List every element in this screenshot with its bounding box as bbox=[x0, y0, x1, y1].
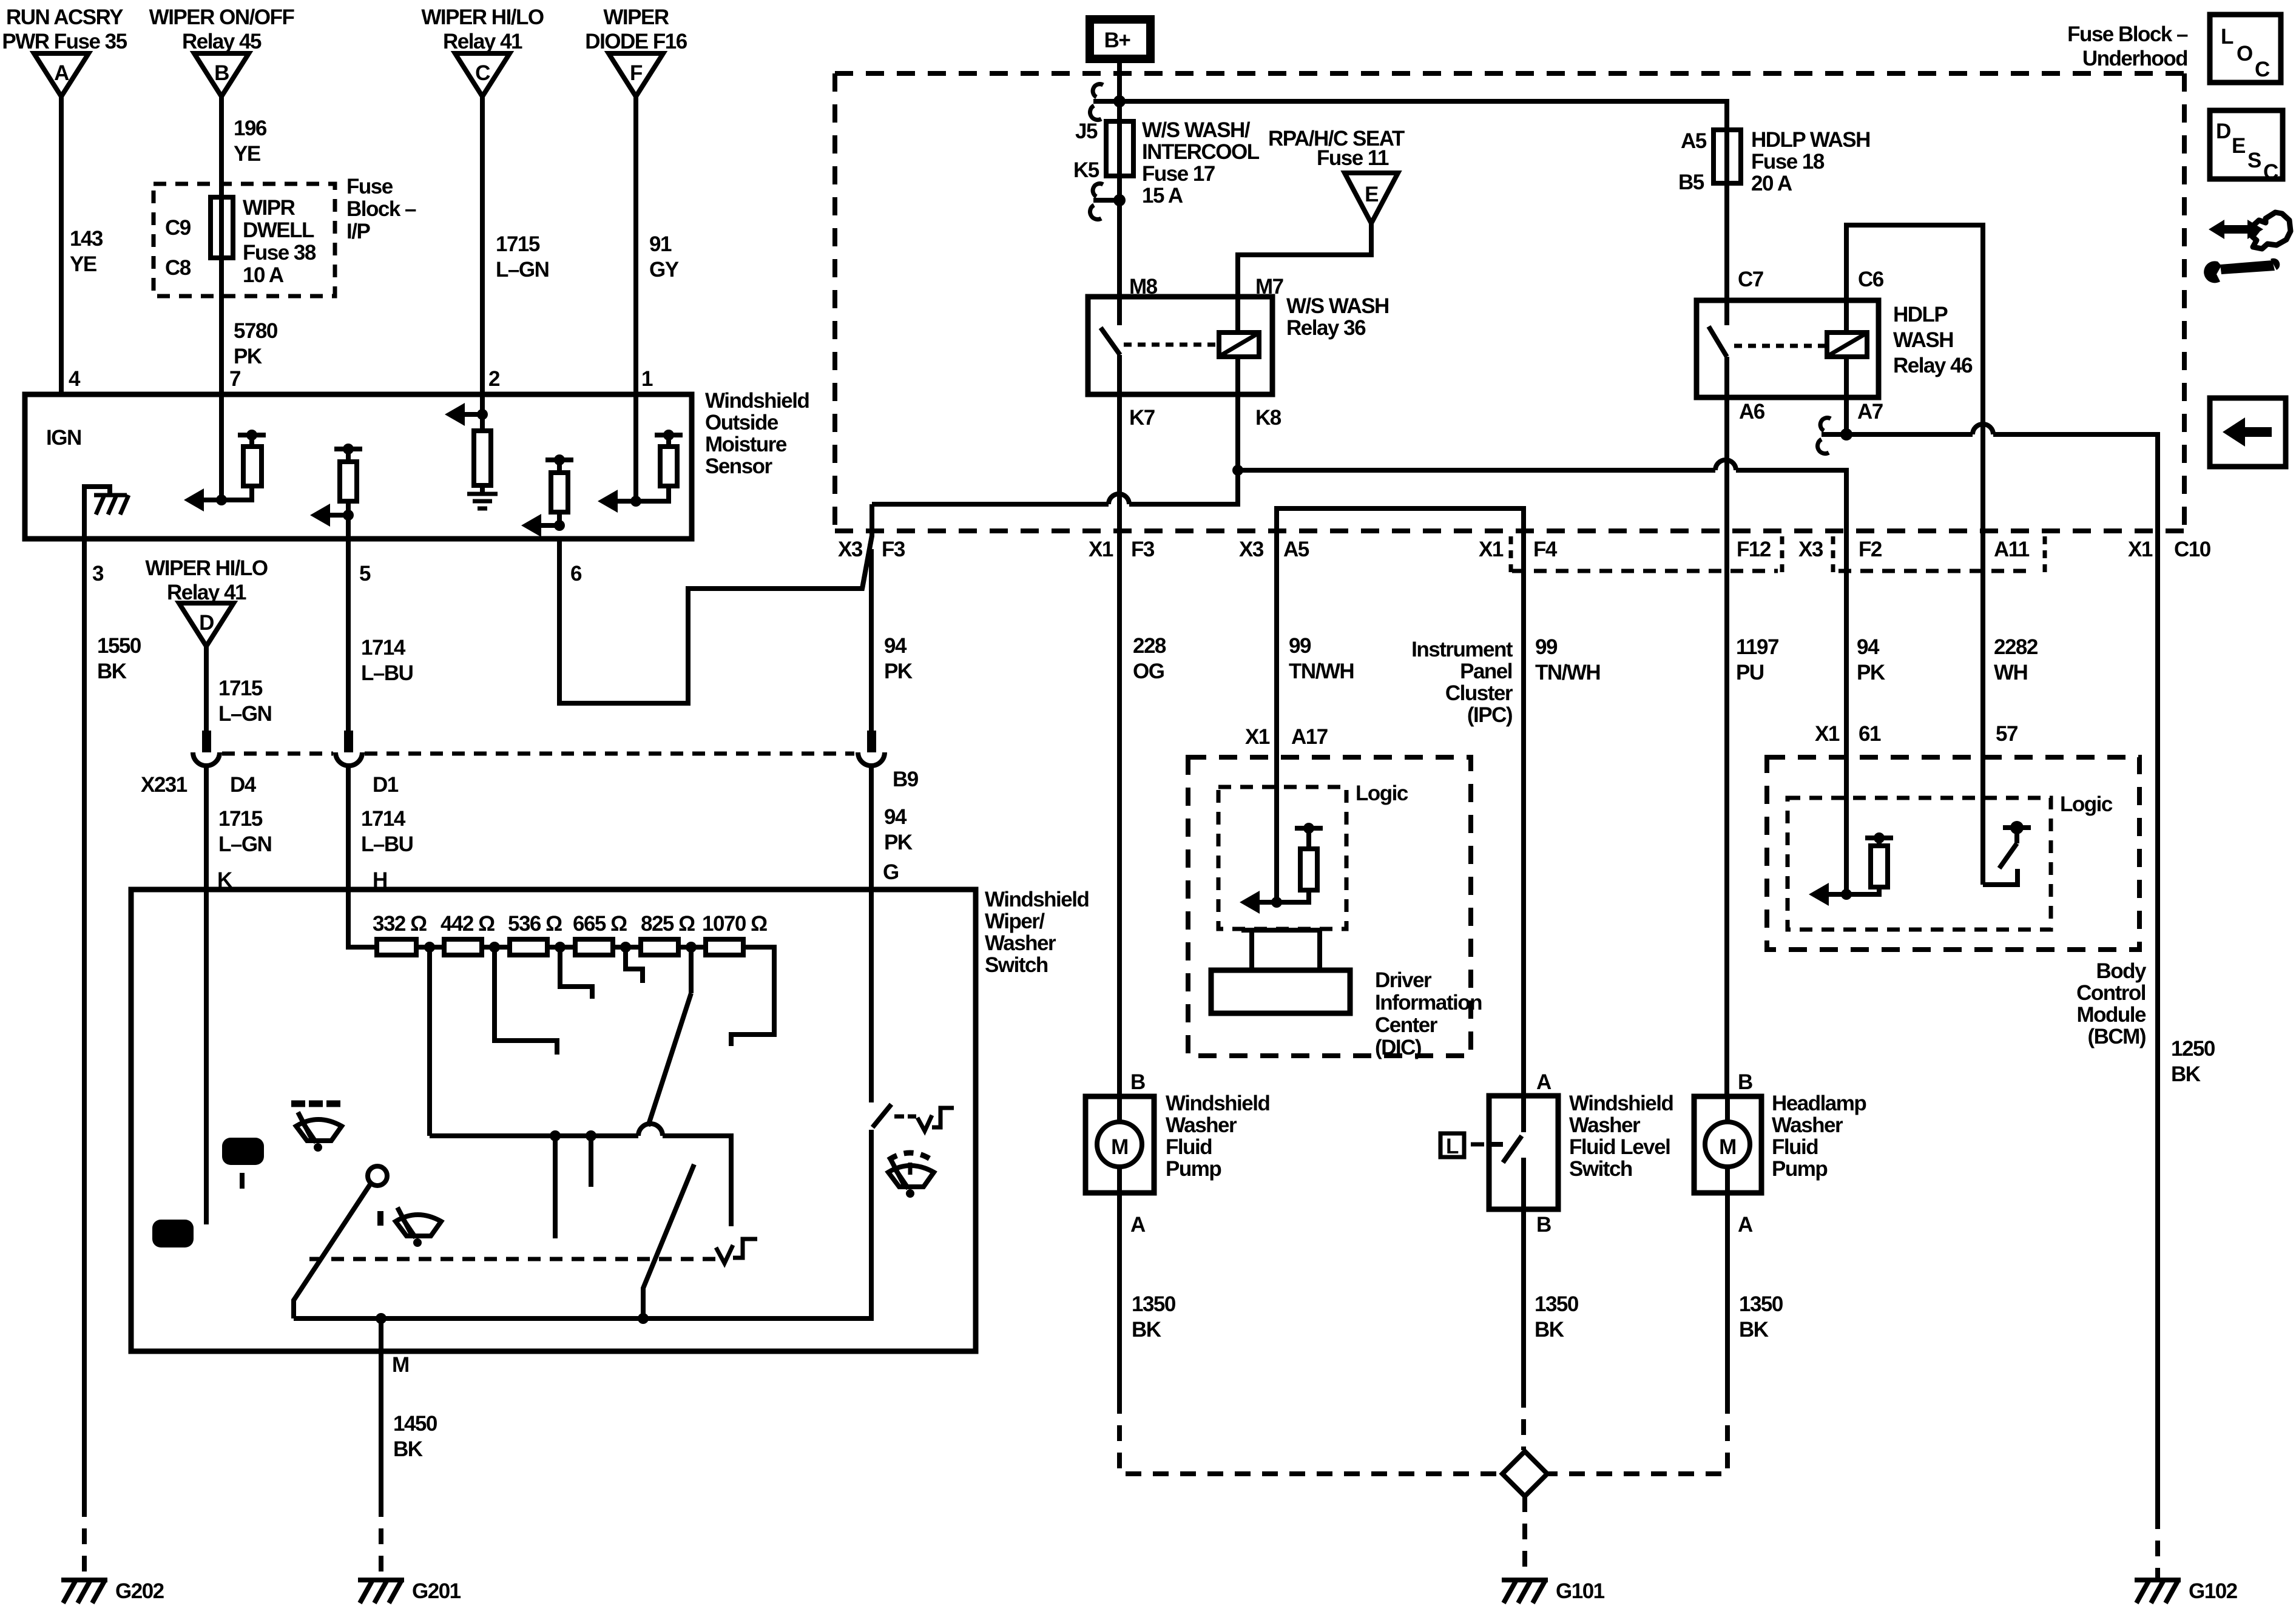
wire ladder link 5 bbox=[678, 945, 706, 950]
svg-text:196: 196 bbox=[234, 116, 267, 140]
label 1350 BK (washer pump) bbox=[1132, 1292, 1176, 1342]
label 143 YE bbox=[70, 227, 103, 276]
label 1350 BK (level switch) bbox=[1535, 1292, 1579, 1342]
connector row tick A11 bbox=[2043, 536, 2047, 573]
svg-text:X1: X1 bbox=[1479, 538, 1504, 561]
svg-text:536 Ω: 536 Ω bbox=[508, 912, 562, 936]
svg-text:5780: 5780 bbox=[234, 319, 278, 343]
svg-text:Control: Control bbox=[2076, 981, 2146, 1005]
BCM internal switch (washer level input) bbox=[1983, 821, 2031, 885]
connector X231 dashed link bbox=[222, 752, 854, 756]
svg-text:(BCM): (BCM) bbox=[2087, 1025, 2146, 1048]
label 91 GY bbox=[649, 232, 679, 282]
svg-text:L–BU: L–BU bbox=[361, 661, 413, 685]
node dot tap3 bbox=[555, 942, 566, 953]
wire pin5 to connector D1 bbox=[346, 515, 351, 731]
washer switch dashes bbox=[894, 1115, 916, 1119]
gang line momentary contact glyph bbox=[716, 1239, 757, 1263]
svg-text:J5: J5 bbox=[1075, 120, 1098, 143]
svg-text:PU: PU bbox=[1736, 661, 1764, 684]
switch internal wire K bbox=[204, 890, 209, 1224]
node dot arm lower on M bus bbox=[638, 1313, 649, 1324]
svg-text:M: M bbox=[392, 1353, 409, 1377]
svg-text:A11: A11 bbox=[1994, 538, 2030, 561]
dashed wire splice to G101 bbox=[1522, 1496, 1527, 1578]
wire K8 node to BCM input 61 (hops A6 wire) bbox=[1238, 460, 1846, 894]
connector row tick F12/X3 bbox=[1780, 536, 1784, 573]
relay 36 actuation dashed link bbox=[1124, 343, 1217, 347]
svg-text:Switch: Switch bbox=[1569, 1157, 1632, 1181]
svg-text:94: 94 bbox=[1857, 635, 1880, 659]
wire dashed to G201 bbox=[379, 1501, 383, 1578]
svg-text:F12: F12 bbox=[1737, 538, 1771, 561]
fuse F18 value label bbox=[1751, 128, 1870, 195]
svg-text:Instrument: Instrument bbox=[1411, 638, 1513, 661]
svg-text:1714: 1714 bbox=[361, 636, 406, 660]
wire A pin4: 143 YE bbox=[59, 96, 64, 394]
IPC internal node: arrow and dot bbox=[1240, 891, 1282, 914]
svg-text:L–BU: L–BU bbox=[361, 832, 413, 856]
node dot K8 bbox=[1232, 465, 1243, 476]
svg-text:X3: X3 bbox=[1798, 538, 1823, 561]
wire B9 to switch pin G: 94 PK bbox=[869, 766, 874, 890]
Fuse Block - Underhood dashed box bbox=[835, 73, 2184, 531]
power triangle C bbox=[455, 53, 510, 96]
MIST position blob bbox=[222, 1138, 264, 1165]
svg-text:G101: G101 bbox=[1556, 1579, 1605, 1603]
svg-text:S: S bbox=[2247, 149, 2261, 172]
wire dashed to G202 bbox=[82, 1501, 87, 1578]
svg-text:10 A: 10 A bbox=[243, 263, 284, 287]
module BCM dashed box bbox=[1767, 757, 2139, 950]
svg-text:L–GN: L–GN bbox=[218, 702, 271, 726]
svg-text:Windshield: Windshield bbox=[1166, 1092, 1269, 1115]
svg-text:X1: X1 bbox=[1815, 722, 1840, 746]
svg-text:Relay 45: Relay 45 bbox=[182, 30, 262, 53]
svg-text:C: C bbox=[475, 61, 490, 85]
svg-text:99: 99 bbox=[1535, 635, 1558, 659]
label 1715 L-GN (below D4) bbox=[218, 807, 271, 856]
power triangle B bbox=[194, 53, 249, 96]
svg-text:A5: A5 bbox=[1283, 538, 1309, 561]
sensor pin1 internal node: arrow and dot bbox=[598, 490, 641, 513]
wiper icon low (tick left) bbox=[380, 1207, 441, 1247]
svg-text:1715: 1715 bbox=[218, 807, 263, 831]
svg-text:B: B bbox=[1738, 1070, 1752, 1094]
relay 36 coil bbox=[1219, 297, 1259, 394]
relay 46 coil bbox=[1827, 300, 1867, 397]
label Instrument Panel Cluster (IPC) bbox=[1411, 638, 1513, 727]
svg-text:W/S WASH/: W/S WASH/ bbox=[1142, 118, 1251, 142]
wire pump A: 1350 BK bbox=[1117, 1193, 1122, 1398]
power feed E: RPA/H/C SEAT Fuse 11 label bbox=[1268, 127, 1405, 170]
node dot tap2 bbox=[489, 942, 500, 953]
label Headlamp Washer Fluid Pump bbox=[1772, 1092, 1866, 1181]
wire D1 to switch pin H: 1714 L-BU bbox=[346, 766, 351, 890]
power feed C: WIPER HI/LO Relay 41 label bbox=[421, 5, 544, 53]
svg-text:(DIC): (DIC) bbox=[1375, 1036, 1421, 1059]
svg-text:BK: BK bbox=[97, 660, 127, 683]
svg-text:Fuse 17: Fuse 17 bbox=[1142, 162, 1215, 186]
connector X231 terminal D4 bbox=[193, 731, 220, 766]
svg-text:Fluid: Fluid bbox=[1772, 1135, 1818, 1159]
sensor pin7 internal resistor bbox=[221, 430, 266, 500]
svg-text:G201: G201 bbox=[412, 1579, 461, 1603]
svg-text:G202: G202 bbox=[115, 1579, 164, 1603]
connector row lower dashed edge right bbox=[1838, 569, 2035, 573]
svg-text:D4: D4 bbox=[230, 773, 257, 797]
switch internal wire H to resistor ladder bbox=[348, 890, 377, 947]
wire headlamp pump A: 1350 BK bbox=[1725, 1193, 1730, 1398]
wire D to connector X231 D4 bbox=[204, 646, 209, 732]
fuse F18 HDLP WASH bbox=[1714, 130, 1741, 183]
fuse F38 WIPR DWELL bbox=[211, 197, 233, 258]
svg-text:143: 143 bbox=[70, 227, 103, 251]
svg-text:Relay 46: Relay 46 bbox=[1893, 354, 1973, 377]
svg-text:442 Ω: 442 Ω bbox=[441, 912, 495, 936]
icon box LOC bbox=[2210, 15, 2281, 83]
icon box DESC bbox=[2210, 110, 2283, 184]
svg-text:E: E bbox=[1365, 183, 1378, 206]
svg-text:1197: 1197 bbox=[1736, 635, 1778, 659]
dashed wire washer pump to splice bbox=[1119, 1398, 1501, 1474]
motor M1 Windshield Washer Fluid Pump bbox=[1086, 1096, 1154, 1193]
relay 46 switch contact bbox=[1709, 300, 1727, 397]
svg-text:Fuse: Fuse bbox=[346, 175, 393, 198]
svg-text:F3: F3 bbox=[1131, 538, 1155, 561]
svg-text:Fluid: Fluid bbox=[1166, 1135, 1212, 1159]
svg-text:5: 5 bbox=[359, 562, 371, 586]
level switch L actuator box bbox=[1440, 1133, 1484, 1158]
ground G101 bbox=[1502, 1580, 1548, 1603]
label 99 TN/WH (IPC) bbox=[1289, 634, 1354, 683]
svg-text:Washer: Washer bbox=[1166, 1113, 1237, 1137]
svg-text:A: A bbox=[1130, 1213, 1146, 1237]
sensor pin7 internal node: arrow and dot bbox=[184, 394, 227, 511]
svg-text:W/S WASH: W/S WASH bbox=[1286, 294, 1389, 318]
node dot tap1 bbox=[424, 942, 435, 953]
svg-text:A17: A17 bbox=[1291, 725, 1328, 749]
splice diamond bbox=[1502, 1451, 1547, 1496]
svg-text:1550: 1550 bbox=[97, 634, 141, 658]
splice connector above fuse 17 bbox=[1090, 84, 1126, 120]
svg-text:1450: 1450 bbox=[393, 1412, 437, 1436]
svg-text:YE: YE bbox=[70, 252, 96, 276]
svg-text:BK: BK bbox=[1739, 1318, 1769, 1342]
power triangle A bbox=[34, 53, 89, 96]
wiper common line with pivot hump bbox=[430, 1124, 731, 1226]
label 94 PK (below B9) bbox=[884, 805, 913, 854]
svg-text:20 A: 20 A bbox=[1751, 172, 1792, 195]
ground G202 bbox=[61, 1580, 107, 1603]
wire ladder link 3 bbox=[547, 945, 575, 950]
svg-text:(IPC): (IPC) bbox=[1467, 703, 1512, 727]
svg-text:Moisture: Moisture bbox=[705, 433, 787, 456]
svg-text:O: O bbox=[2237, 42, 2252, 66]
svg-text:BK: BK bbox=[393, 1437, 423, 1461]
svg-text:A: A bbox=[1738, 1213, 1753, 1237]
svg-text:Fuse Block –: Fuse Block – bbox=[2067, 22, 2188, 46]
svg-text:1350: 1350 bbox=[1535, 1292, 1579, 1316]
svg-text:K5: K5 bbox=[1073, 158, 1099, 182]
svg-text:Pump: Pump bbox=[1772, 1157, 1827, 1181]
svg-text:Fluid Level: Fluid Level bbox=[1569, 1135, 1670, 1159]
wire F: 91 GY bbox=[633, 96, 638, 501]
splice connector below fuse 17 bbox=[1090, 184, 1126, 220]
svg-text:X1: X1 bbox=[2128, 538, 2153, 561]
svg-text:IGN: IGN bbox=[46, 426, 81, 450]
power triangle F bbox=[609, 53, 663, 96]
label 228 OG bbox=[1133, 634, 1166, 683]
IPC internal resistor bbox=[1277, 823, 1323, 902]
wire E to relay 36 pin M7 bbox=[1238, 223, 1371, 297]
sensor internal earth ground symbol bbox=[467, 494, 498, 508]
svg-text:Panel: Panel bbox=[1460, 660, 1512, 683]
connector row tick X1/F4 bbox=[1509, 536, 1513, 573]
svg-text:TN/WH: TN/WH bbox=[1535, 661, 1600, 684]
svg-text:B5: B5 bbox=[1678, 170, 1704, 194]
label Windshield Washer Fluid Level Switch bbox=[1569, 1092, 1673, 1181]
power feed B: WIPER ON/OFF Relay 45 label bbox=[149, 5, 295, 53]
label 1714 L-BU (below D1) bbox=[361, 807, 413, 856]
svg-text:Sensor: Sensor bbox=[705, 454, 773, 478]
svg-text:F2: F2 bbox=[1859, 538, 1882, 561]
svg-text:B: B bbox=[1130, 1070, 1145, 1094]
Windshield Outside Moisture Sensor box bbox=[25, 394, 692, 539]
wire D4 to switch pin K: 1715 L-GN bbox=[204, 766, 209, 890]
wire M output: 1450 BK bbox=[379, 1318, 383, 1501]
selector arm left (to M bus) bbox=[294, 1184, 370, 1318]
svg-text:Relay 36: Relay 36 bbox=[1286, 316, 1366, 340]
svg-text:Outside: Outside bbox=[705, 411, 778, 434]
node dot common b bbox=[586, 1130, 596, 1141]
svg-text:2: 2 bbox=[488, 367, 500, 391]
svg-text:G: G bbox=[883, 860, 899, 884]
icon hand with double arrow and wrench bbox=[2204, 212, 2291, 283]
sensor pin2 internal resistor to ground bbox=[474, 414, 491, 494]
sensor pin5 internal resistor with top tap bbox=[334, 444, 362, 515]
selector pivot circle bbox=[368, 1166, 387, 1186]
resistor 442 ohm bbox=[444, 939, 482, 955]
wire B: 196 YE bbox=[219, 96, 224, 394]
connector B9 terminal bbox=[858, 731, 885, 766]
svg-text:99: 99 bbox=[1289, 634, 1311, 658]
svg-text:OG: OG bbox=[1133, 660, 1164, 683]
svg-text:K8: K8 bbox=[1255, 406, 1281, 430]
svg-text:Body: Body bbox=[2096, 959, 2147, 983]
svg-text:Headlamp: Headlamp bbox=[1772, 1092, 1866, 1115]
resistor 332 ohm bbox=[377, 939, 416, 955]
svg-text:Cluster: Cluster bbox=[1445, 681, 1513, 705]
power feed F: WIPER DIODE F16 label bbox=[585, 5, 687, 53]
svg-text:PK: PK bbox=[884, 660, 913, 683]
label 1450 BK bbox=[393, 1412, 437, 1461]
svg-text:A: A bbox=[1536, 1070, 1551, 1094]
resistor 665 ohm bbox=[575, 939, 613, 955]
wire bridge IPC A17 to level switch A: 99 TN/WH bbox=[1277, 508, 1524, 1096]
svg-text:665 Ω: 665 Ω bbox=[573, 912, 627, 936]
wire fuse 17 to relay 36 pin M8 bbox=[1117, 176, 1122, 297]
wire feed to HDLP WASH fuse bbox=[1119, 101, 1727, 130]
svg-text:M: M bbox=[1719, 1135, 1736, 1159]
fuse block I/P dashed box bbox=[154, 184, 335, 296]
svg-text:HDLP WASH: HDLP WASH bbox=[1751, 128, 1870, 152]
sensor pin6 internal resistor with top tap bbox=[545, 454, 573, 525]
resistor 825 ohm bbox=[641, 939, 678, 955]
svg-text:A7: A7 bbox=[1857, 400, 1883, 424]
svg-text:PK: PK bbox=[234, 345, 262, 368]
label 1197 PU bbox=[1736, 635, 1778, 684]
svg-text:C7: C7 bbox=[1738, 268, 1763, 291]
label 1715 L-GN (above D4) bbox=[218, 677, 271, 726]
svg-text:Relay 41: Relay 41 bbox=[443, 30, 522, 53]
svg-text:INTERCOOL: INTERCOOL bbox=[1142, 140, 1260, 164]
module IPC dashed box bbox=[1188, 757, 1471, 1056]
label Windshield Wiper/Washer Switch bbox=[985, 888, 1089, 977]
contact stub a bbox=[553, 1136, 558, 1238]
label Driver Information Center (DIC) bbox=[1375, 968, 1482, 1059]
connector X231 terminal D1 bbox=[336, 731, 362, 766]
label 2282 WH bbox=[1994, 635, 2038, 684]
sensor internal chassis ground symbol bbox=[94, 495, 129, 515]
label Windshield Outside Moisture Sensor bbox=[705, 389, 809, 478]
sensor pin2 internal node: arrow and dot bbox=[445, 403, 488, 426]
svg-text:YE: YE bbox=[234, 142, 260, 166]
motor M2 Headlamp Washer Fluid Pump bbox=[1694, 1096, 1761, 1193]
wire ladder link 1 bbox=[416, 945, 444, 950]
svg-text:A6: A6 bbox=[1739, 400, 1765, 424]
svg-text:Wiper/: Wiper/ bbox=[985, 910, 1045, 933]
svg-text:L–GN: L–GN bbox=[496, 258, 549, 282]
M bus line bbox=[294, 1130, 871, 1318]
svg-text:Switch: Switch bbox=[985, 953, 1048, 977]
svg-text:Logic: Logic bbox=[1356, 781, 1408, 805]
svg-text:C8: C8 bbox=[165, 256, 191, 280]
power feed D: WIPER HI/LO Relay 41 label bbox=[145, 556, 268, 604]
relay K46 HDLP WASH Relay 46 box bbox=[1697, 300, 1879, 397]
BCM logic dashed box bbox=[1788, 798, 2051, 930]
svg-text:C10: C10 bbox=[2174, 538, 2211, 561]
sensor pin1 internal resistor bbox=[636, 430, 683, 501]
svg-text:G102: G102 bbox=[2189, 1579, 2238, 1603]
svg-text:C: C bbox=[2255, 58, 2270, 81]
label Fuse Block - I/P bbox=[346, 175, 416, 243]
svg-text:B: B bbox=[214, 61, 229, 85]
svg-text:WASH: WASH bbox=[1893, 328, 1953, 352]
svg-text:Center: Center bbox=[1375, 1013, 1438, 1037]
svg-text:C6: C6 bbox=[1858, 268, 1884, 291]
svg-text:1070 Ω: 1070 Ω bbox=[702, 912, 767, 936]
splice connector at A7 node bbox=[1817, 418, 1852, 454]
label 5780 PK bbox=[234, 319, 278, 368]
label 1350 BK (headlamp pump) bbox=[1739, 1292, 1783, 1342]
label 94 PK (above B9) bbox=[884, 634, 913, 683]
selector arm upper (rotary wiper) bbox=[648, 993, 691, 1126]
svg-text:D: D bbox=[2216, 120, 2230, 143]
svg-text:Module: Module bbox=[2077, 1003, 2147, 1027]
svg-text:B9: B9 bbox=[893, 768, 919, 791]
svg-text:C: C bbox=[2263, 160, 2278, 184]
svg-text:4: 4 bbox=[69, 367, 81, 391]
svg-text:WH: WH bbox=[1994, 661, 2027, 684]
switch internal dashed gang line bbox=[309, 1257, 716, 1261]
svg-text:A: A bbox=[54, 61, 69, 85]
dashed wire to G102 bbox=[2155, 1513, 2160, 1578]
wire A7 to C10 (hops 2282 WH wire): 1250 BK bbox=[1846, 424, 2158, 1513]
svg-text:Pump: Pump bbox=[1166, 1157, 1221, 1181]
svg-text:228: 228 bbox=[1133, 634, 1166, 658]
svg-text:1715: 1715 bbox=[218, 677, 263, 700]
svg-text:X3: X3 bbox=[838, 538, 863, 561]
svg-text:15 A: 15 A bbox=[1142, 184, 1183, 208]
wire level switch B: 1350 BK bbox=[1521, 1209, 1526, 1392]
wire tap5 to selector arm bbox=[689, 947, 694, 993]
svg-text:Fuse 11: Fuse 11 bbox=[1317, 146, 1389, 170]
svg-text:D: D bbox=[199, 611, 214, 635]
wire after 1070 ohm with step contact bbox=[731, 947, 774, 1046]
svg-text:I/P: I/P bbox=[346, 220, 370, 243]
wire C6 to BCM input 57: 2282 WH bbox=[1846, 225, 1983, 885]
svg-text:Underhood: Underhood bbox=[2082, 47, 2187, 70]
svg-text:WIPR: WIPR bbox=[243, 196, 295, 220]
washer switch wire G end bbox=[869, 890, 874, 1102]
svg-text:Washer: Washer bbox=[1772, 1113, 1843, 1137]
svg-text:WIPER: WIPER bbox=[603, 5, 669, 29]
wire K7 to washer pump: 228 OG bbox=[1117, 394, 1122, 1096]
washer switch arm bbox=[873, 1104, 891, 1127]
svg-text:94: 94 bbox=[884, 805, 907, 829]
dashed wire headlamp pump to splice bbox=[1548, 1398, 1727, 1474]
svg-text:M: M bbox=[1111, 1135, 1128, 1159]
svg-text:2282: 2282 bbox=[1994, 635, 2038, 659]
svg-text:E: E bbox=[2232, 134, 2245, 158]
wire pin6 to fuse block F3 (routing) bbox=[559, 504, 872, 703]
svg-text:Windshield: Windshield bbox=[985, 888, 1089, 911]
wire ladder link 4 bbox=[613, 945, 641, 950]
svg-text:DIODE F16: DIODE F16 bbox=[585, 30, 687, 53]
svg-text:1350: 1350 bbox=[1739, 1292, 1783, 1316]
svg-text:Information: Information bbox=[1375, 991, 1482, 1014]
svg-text:3: 3 bbox=[92, 562, 104, 586]
connector row lower dashed edge left bbox=[1512, 569, 1778, 573]
svg-text:Driver: Driver bbox=[1375, 968, 1432, 992]
fuse F17 W/S WASH INTERCOOL bbox=[1106, 121, 1133, 176]
label 1715 L-GN bbox=[496, 232, 549, 282]
IPC logic dashed box bbox=[1218, 787, 1346, 929]
resistor 536 ohm bbox=[510, 939, 547, 955]
svg-text:94: 94 bbox=[884, 634, 907, 658]
power triangle E bbox=[1345, 173, 1398, 223]
BCM internal resistor bbox=[1846, 832, 1893, 894]
battery feed B+ box bbox=[1090, 19, 1150, 59]
power feed A: RUN ACSRY PWR Fuse 35 label bbox=[2, 5, 127, 53]
svg-text:Washer: Washer bbox=[985, 931, 1056, 955]
svg-text:WIPER ON/OFF: WIPER ON/OFF bbox=[149, 5, 295, 29]
svg-text:D1: D1 bbox=[373, 773, 399, 797]
fuse F17 value label bbox=[1142, 118, 1260, 208]
DIC bracket bbox=[1241, 930, 1320, 970]
svg-text:PK: PK bbox=[884, 831, 913, 854]
mist tick bbox=[240, 1173, 245, 1189]
label Windshield Washer Fluid Pump bbox=[1166, 1092, 1269, 1181]
svg-text:1350: 1350 bbox=[1132, 1292, 1176, 1316]
svg-text:57: 57 bbox=[1996, 722, 2017, 746]
wire C: 1715 L-GN bbox=[480, 96, 485, 414]
switch S1 Windshield Washer Fluid Level Switch bbox=[1489, 1096, 1558, 1209]
relay 36 switch contact bbox=[1101, 297, 1120, 394]
svg-text:Windshield: Windshield bbox=[1569, 1092, 1673, 1115]
resistor 1070 ohm bbox=[706, 939, 743, 955]
